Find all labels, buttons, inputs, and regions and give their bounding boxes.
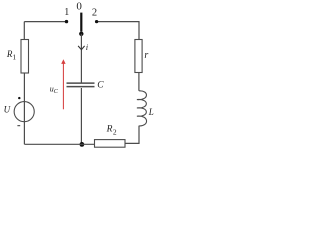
svg-text:2: 2 — [92, 8, 97, 19]
wire: middle branch from capacitor down to bottom junction — [80, 88, 82, 144]
svg-text:r: r — [144, 50, 148, 61]
svg-text:1: 1 — [64, 7, 69, 18]
svg-text:R: R — [106, 124, 113, 134]
wire: left branch vertical (top corner to R1) — [23, 22, 25, 40]
resistor R1 — [21, 40, 29, 74]
switch pivot dot — [79, 32, 83, 36]
resistor R2 — [95, 140, 126, 148]
wire: from R2 right end to right branch corner and up to coil — [125, 126, 139, 144]
current arrow (chevron) on middle wire — [78, 46, 85, 50]
minus terminal mark — [17, 125, 20, 127]
svg-text:0: 0 — [76, 1, 82, 13]
red arrow uC (capacitor voltage) — [62, 63, 64, 110]
svg-text:C: C — [97, 81, 104, 91]
switch lever (position 0) — [80, 13, 82, 32]
wire: left branch between R1 and source U — [23, 73, 25, 144]
inductor L coil — [137, 91, 147, 126]
wire: right branch between r and coil — [138, 73, 140, 91]
switch contact dot 2 — [95, 20, 98, 23]
capacitor C plates — [67, 82, 95, 84]
svg-text:L: L — [148, 107, 154, 117]
plus terminal dot — [18, 97, 20, 99]
wire: top-right horizontal from contact 2 to right branch corner — [97, 22, 139, 40]
wire: bottom run from left corner to R2 — [24, 143, 94, 145]
svg-text:2: 2 — [113, 128, 117, 137]
wire: middle branch from pivot down to capacitor — [80, 34, 82, 83]
switch contact dot 1 — [65, 20, 68, 23]
voltage source U circle — [14, 102, 34, 122]
wire: top-left horizontal from left branch to contact 1 — [24, 21, 66, 23]
resistor r — [135, 40, 142, 73]
junction dot (bottom node) — [80, 142, 85, 147]
svg-text:U: U — [4, 105, 11, 115]
svg-text:1: 1 — [12, 53, 16, 62]
